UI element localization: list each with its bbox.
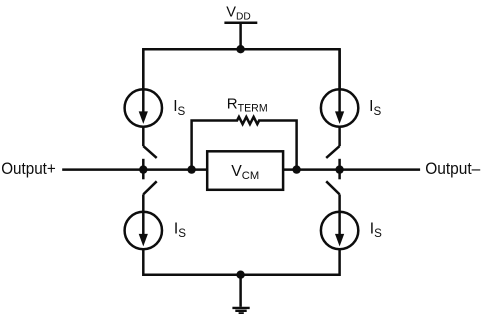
current source I_S (bottom-right)	[321, 212, 358, 249]
current source I_S (top-right)	[321, 49, 358, 127]
label R_TERM	[227, 95, 268, 114]
wire switch stub below Output- node	[338, 170, 341, 180]
svg-text:Output–: Output–	[425, 159, 481, 178]
wire switch to bottom-left source	[142, 194, 145, 211]
wire VDD stub	[239, 23, 242, 49]
wire switch stub above Output+ node	[142, 159, 145, 170]
node right V_CM junction	[292, 165, 300, 173]
wire top rail	[143, 49, 339, 89]
current source I_S (bottom-left)	[125, 212, 162, 249]
net VDD label	[226, 4, 250, 22]
label I_S bottom-right	[370, 220, 382, 240]
wire top-right source to switch	[338, 127, 341, 146]
wire switch stub above Output- node	[338, 159, 341, 170]
switch blade (top-left)	[143, 146, 156, 158]
wire ground stub	[239, 275, 242, 307]
svg-text:Output+: Output+	[1, 159, 56, 178]
node Output+ junction	[139, 165, 147, 173]
label I_S bottom-left	[174, 220, 186, 240]
junction bottom rail ground node	[236, 271, 244, 279]
label V_CM	[231, 163, 259, 182]
VDD supply bar	[224, 22, 257, 25]
label I_S top-right	[369, 98, 381, 118]
resistor R_TERM loop with zigzag	[192, 117, 297, 170]
label Output+	[1, 159, 56, 178]
label I_S top-left	[173, 98, 185, 118]
wire main horizontal line	[62, 168, 420, 171]
switch blade (bottom-right)	[326, 181, 339, 194]
switch blade (bottom-left)	[143, 181, 156, 194]
ground symbol	[232, 308, 249, 313]
node Output- junction	[335, 165, 343, 173]
wire bottom rail	[143, 249, 339, 275]
wire switch stub below Output+ node	[142, 170, 145, 180]
label Output-	[425, 159, 481, 178]
voltage source V_CM box	[207, 151, 283, 190]
wire top-left source to switch	[142, 127, 145, 146]
node left V_CM junction	[187, 165, 195, 173]
wire switch to bottom-right source	[338, 194, 341, 211]
switch blade (top-right)	[326, 146, 339, 158]
junction top rail VDD node	[236, 45, 244, 53]
current source I_S (top-left)	[125, 49, 162, 127]
